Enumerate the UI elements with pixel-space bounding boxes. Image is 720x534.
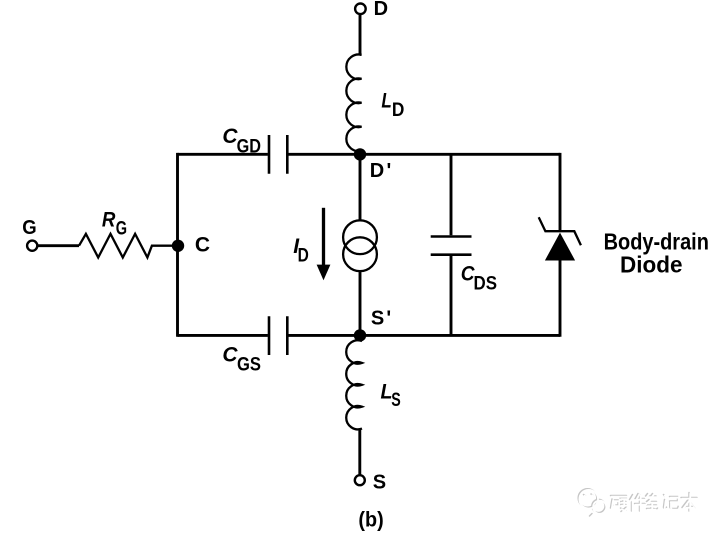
- svg-text:C: C: [195, 234, 210, 257]
- svg-text:S: S: [391, 390, 401, 411]
- svg-text:DS: DS: [474, 274, 498, 295]
- svg-text:S: S: [373, 471, 386, 493]
- svg-text:D: D: [392, 100, 405, 121]
- svg-text:D': D': [370, 160, 394, 182]
- svg-text:GD: GD: [237, 137, 261, 158]
- svg-text:S': S': [371, 307, 394, 329]
- svg-text:G: G: [116, 219, 127, 240]
- svg-text:(b): (b): [358, 508, 383, 532]
- svg-text:D: D: [298, 245, 309, 266]
- svg-text:G: G: [22, 217, 36, 239]
- svg-text:D: D: [374, 0, 388, 20]
- svg-text:GS: GS: [237, 354, 261, 375]
- svg-text:C: C: [222, 344, 238, 367]
- svg-text:L: L: [381, 89, 391, 112]
- svg-text:Diode: Diode: [620, 252, 683, 278]
- svg-text:R: R: [102, 208, 116, 231]
